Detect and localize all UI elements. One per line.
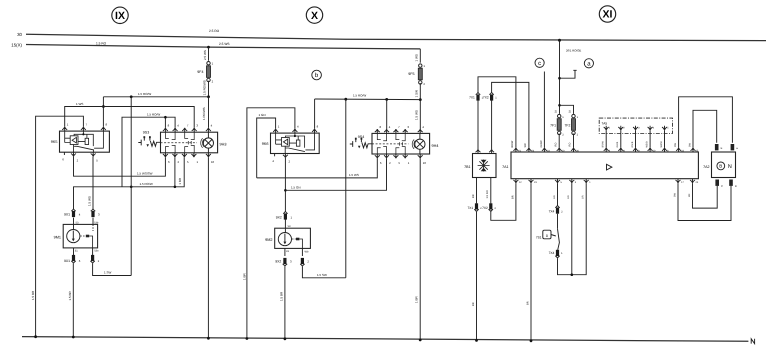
pin top-right of 7B1 [489,149,494,153]
svg-text:1.5 RO: 1.5 RO [486,190,489,198]
svg-text:E: E [721,147,723,150]
svg-text:23: 23 [534,181,537,184]
wire washer interconnect vertical x131 [130,97,132,276]
node 7X1.2 wire / ground bus [475,339,478,342]
connector 7A2 bottom pin D [729,180,737,189]
pin 2 of 9K5 [71,152,79,162]
pin 7 of 9K5 [81,123,88,131]
node pin8 riser / 1 WS line [102,105,105,108]
pin 2 of 9K6 [283,154,291,164]
svg-text:2: 2 [562,134,564,137]
pin 4 top of 9H4 [384,125,391,133]
svg-text:GE/B: GE/B [616,141,619,147]
wire net2' to washer 9H4 pin2 [285,158,386,190]
svg-text:1 SW: 1 SW [104,271,112,275]
svg-text:1: 1 [562,116,564,119]
wire branch to fuse 7F2 [560,105,574,114]
svg-text:9K6: 9K6 [262,142,269,146]
svg-text:9H4: 9H4 [432,144,439,148]
wire 7A1.23 to ground bus [526,183,531,341]
svg-text:10: 10 [211,160,215,164]
wire motor to lower connectors [74,248,93,255]
wire 9X1.4 into motor [73,218,75,230]
svg-text:7F2: 7F2 [565,124,571,128]
svg-text:9H3: 9H3 [220,143,227,147]
node bus 30 / radio feed [558,39,561,42]
svg-text:1 BR: 1 BR [415,295,419,303]
switch 9S4 [350,135,372,148]
pin 8b of 7A1 [633,148,640,153]
svg-text:3: 3 [98,213,100,217]
connector 9X2 pin-1 [276,211,293,219]
svg-text:SW: SW [688,142,691,147]
connector 7A2 top pin a [731,144,739,150]
washer 9H4 internals [372,133,408,154]
connector 7X1 pin2 [468,203,483,211]
svg-text:7A1: 7A1 [502,165,508,169]
svg-text:4: 4 [211,124,213,128]
pin 4b top of 9H3 [206,124,213,133]
wire fuse to pin4b top [208,97,210,128]
relay 9K5 internals [65,131,104,152]
pin 10 of 7A1 [557,148,565,153]
pin 8 of 9K5 [101,123,108,131]
svg-text:5: 5 [96,158,98,162]
wire 7A5.4 to 7A1 [646,130,651,147]
washer unit 9H4 [372,133,438,154]
svg-text:6: 6 [168,160,170,164]
svg-text:2.5 WS: 2.5 WS [203,50,207,60]
pin 6 bottom of 9H3 [163,153,170,164]
svg-text:1: 1 [589,181,591,184]
svg-text:26/1 RO/GE: 26/1 RO/GE [566,49,581,53]
svg-text:30: 30 [569,110,572,113]
svg-text:WS/B: WS/B [646,141,649,148]
svg-text:BR: BR [526,301,529,305]
svg-text:1.5 SW: 1.5 SW [317,273,327,277]
wire 7X2.2 to 7A1 pin 12 [491,183,516,220]
pin 21 of 7A1 [513,148,521,153]
svg-text:7F1: 7F1 [550,124,556,128]
wire park-feed line y117 to washer box pins 8,4 [122,112,175,187]
wire pin10 to ground bus [207,157,209,338]
svg-text:7A2: 7A2 [703,165,709,169]
svg-text:9K5: 9K5 [51,140,58,144]
wire 7A1.5 to 7X4.2 [553,183,558,205]
svg-text:7A5: 7A5 [602,121,608,125]
svg-text:1: 1 [577,116,579,119]
wire line A' (feed relay 9K6 pin8) [315,94,421,129]
svg-text:5: 5 [667,127,669,130]
pin 5 of 7A1 bottom [555,179,563,184]
svg-text:1.5 RO/W: 1.5 RO/W [138,92,151,96]
svg-text:8: 8 [380,125,382,129]
svg-text:7X1: 7X1 [469,95,475,99]
svg-text:9F5: 9F5 [408,72,414,76]
svg-text:BR: BR [472,302,475,306]
svg-text:1.5 RO/W: 1.5 RO/W [147,112,160,116]
svg-text:BR/W: BR/W [511,140,514,147]
wire ground branch to relay pin7 [31,116,83,337]
pin 3 top of 9H4 [403,125,410,133]
svg-text:RO: RO [554,143,557,147]
svg-text:7X4: 7X4 [549,210,555,214]
wire relay pin2 to washer box pin6 [74,157,166,177]
wire net2 park line y187 [74,157,185,209]
lamp symbol in 9H4 [412,133,425,154]
connector 7X2 pin2 [482,203,496,211]
washer unit 9H3 [161,132,227,153]
wire line A (feed to relay pin8) [103,92,208,127]
pin 6 stub of 9K5 [62,152,64,161]
svg-text:4: 4 [653,127,655,130]
svg-text:53b: 53b [94,221,99,224]
svg-text:1: 1 [561,252,563,255]
svg-text:1 BR: 1 BR [178,177,182,185]
svg-text:1.5 RO: 1.5 RO [96,42,107,46]
svg-text:1.5 RO/W: 1.5 RO/W [140,182,153,186]
node pin10 wire / ground bus [207,337,210,340]
connection marker c [535,58,544,67]
wire 7A1.24 to 7A2.C [688,183,717,208]
svg-text:1: 1 [197,160,199,164]
pin 10 bottom of 9H3 [206,153,215,164]
antenna module 7A5 [599,118,672,133]
connector 9X1 pin1 [90,255,99,263]
svg-text:2: 2 [289,160,291,164]
svg-text:c: c [538,61,541,67]
pin 6 bottom of 9H4 [375,154,382,165]
svg-text:GN/B: GN/B [631,141,634,147]
svg-text:17: 17 [681,181,684,184]
ground bus [22,337,755,344]
pin 5 bottom of 9H4 [393,154,400,165]
svg-text:7S1: 7S1 [536,235,542,239]
svg-text:5: 5 [561,181,563,184]
pin 8c of 7A1 [662,148,669,153]
pump motor 9M2 [265,225,310,253]
svg-text:5: 5 [399,161,401,165]
svg-text:1: 1 [291,216,293,220]
svg-text:3: 3 [196,124,198,128]
svg-text:1: 1 [609,127,611,130]
wire 7X2 down to 7B1 [491,100,493,150]
fuse 9F4 [197,46,213,97]
pin 24 of 7A1 bottom [690,179,699,184]
node switch return / pin3 riser [571,273,574,276]
wire 9H4 pin10 to ground bus [419,158,421,340]
svg-text:7X1: 7X1 [468,206,474,210]
wire 7X1.2 to ground bus [476,212,478,341]
node line A' / pump vertical [344,98,347,101]
pin 3 of 7A5 [633,126,640,130]
pin 8 of 7A1 [618,148,625,153]
svg-text:GR: GR [553,195,556,199]
svg-text:1.5 BR: 1.5 BR [31,290,35,300]
node ground bus / x246 vertical [246,337,249,340]
wire outer U to 7A2 [674,97,732,148]
pin 12 of 7A1 bottom [513,179,522,184]
bus 15(X) [11,43,420,49]
svg-text:1 GN: 1 GN [259,113,266,117]
connector 9X1 pin6 [64,255,81,263]
connector 9X2 pin2 [300,258,309,266]
connector 7X4 pin1 [549,250,563,258]
wire 7A5.5 to 7A1 [660,130,665,147]
svg-text:1: 1 [98,259,100,263]
node 7A1.23 wire / ground bus [530,339,533,342]
svg-text:1 RO/WS: 1 RO/WS [202,107,206,120]
pin 4 top of 9H3 [173,124,180,133]
pin 1 of 9K5 [62,123,69,131]
pin 1 of 7A1 bottom [584,179,592,184]
svg-text:N: N [728,164,732,170]
node fuse 9F5 / line A' [419,98,422,101]
pin 5 of 7A5 [662,126,669,130]
wire inner U to 7A2 [688,110,716,147]
pin 26 of 7A1 [571,148,579,153]
pin 8 top of 9H3 [163,124,170,133]
svg-text:7: 7 [86,123,88,127]
svg-text:Wb: Wb [305,250,309,253]
svg-text:30: 30 [554,110,557,113]
pin 1 of 7A5 [604,126,611,130]
svg-text:12: 12 [519,181,522,184]
svg-text:2: 2 [212,80,214,84]
svg-text:9S3: 9S3 [143,130,149,134]
pin 1 of 9K6 [273,125,280,133]
fuse 7F1 [550,114,564,147]
svg-text:1.5 WS: 1.5 WS [87,196,91,206]
svg-text:0: 0 [546,234,548,238]
svg-text:2: 2 [77,158,79,162]
svg-text:2: 2 [178,160,180,164]
pin 1 bottom of 9H4 [403,154,410,165]
wire terminal stub [560,70,577,78]
svg-text:8: 8 [317,125,319,129]
pin 5 bottom of 9H3 [182,153,189,164]
wire 7X1 down to 7B1 [477,100,479,150]
svg-text:6: 6 [62,158,64,162]
svg-text:IX: IX [115,10,125,22]
section marker IX [112,7,128,23]
svg-text:XI: XI [603,9,613,21]
section marker XI [599,6,615,22]
lamp symbol in 9H3 [201,132,214,153]
svg-text:C: C [721,185,723,188]
pin 4 of 9K6 [292,125,299,133]
svg-text:1.5 WS: 1.5 WS [415,110,419,120]
svg-text:1 SW: 1 SW [414,90,418,98]
wire 7X1 to 7A1 pin 21 [478,77,516,148]
svg-text:D: D [735,185,737,188]
svg-text:SW: SW [524,143,527,148]
pin 10b of 7A1 [648,148,656,153]
svg-text:7: 7 [187,124,189,128]
svg-text:4: 4 [422,125,424,129]
pin 4b top of 9H4 [418,125,425,133]
svg-text:1: 1 [67,123,69,127]
svg-text:X: X [311,10,318,22]
svg-text:2.5 RO: 2.5 RO [209,29,220,33]
svg-text:GR: GR [567,195,570,199]
wire 7A1.17 to 7A2.D [673,183,731,220]
pump motor 9M1 [54,221,99,252]
wire 9X2.3 to ground bus [279,266,285,339]
pin 23 of 7A1 [676,148,684,153]
switch 7S1 [536,214,560,250]
svg-text:GR: GR [582,195,585,199]
svg-text:SW: SW [673,192,676,197]
wire relay 9K6 pin2 down [284,158,286,212]
svg-text:4: 4 [272,159,274,163]
svg-text:53e: 53e [94,249,99,252]
pin 3 of 7A1 bottom [569,179,577,184]
node pin2 wire / net2' [284,189,287,192]
pin 2 bottom of 9H3 [172,153,179,164]
wire 1 WS (relay pin1 to washer box pin3) [65,102,195,128]
pin 7 top of 9H4 [393,125,400,133]
connector 7A2 top pin E [715,144,723,150]
pin 25 of 7A1 [691,148,699,153]
wire 7A5.2 to 7A1 [616,130,621,147]
pin 3 top of 9H3 [192,124,199,133]
node ground bus / left vertical [34,335,37,338]
svg-text:5: 5 [187,160,189,164]
wire pump vertical x345 [345,99,347,278]
pin top-left of 7B1 [476,149,481,153]
section marker X [306,7,322,23]
node net2 / washer vertical [130,186,133,189]
svg-text:31: 31 [75,249,78,252]
svg-text:a: a [736,147,738,150]
svg-text:SW: SW [674,142,677,147]
svg-text:7X2: 7X2 [483,95,489,99]
svg-text:1: 1 [278,125,280,129]
svg-text:1.5 RO/W: 1.5 RO/W [353,94,366,98]
node line A / washer vertical [130,95,133,98]
svg-text:2: 2 [623,127,625,130]
svg-text:7X2: 7X2 [482,206,488,210]
wire 9X1.3 into motor [92,218,94,225]
connector 7A2 bottom pin C [715,180,723,189]
wire c-drop to 7A1 pin 18 [540,72,545,148]
connection marker a [584,59,593,68]
wire motor 9M2 to lower connectors [285,248,303,256]
connector 9X1 pin4 [64,209,81,217]
svg-text:1.5 GN: 1.5 GN [291,186,301,190]
svg-text:BR: BR [688,193,691,197]
pin 8 top of 9H4 [375,125,382,133]
node fuse branch junction [558,104,561,107]
connector 9X2 pin3 [275,258,292,266]
pin 23 of 7A1 bottom [529,179,538,184]
pin 10 bottom of 9H4 [418,154,427,165]
svg-text:2: 2 [423,82,425,86]
wire relay pin5 to connector 9X1.3 [87,157,93,210]
svg-text:3: 3 [290,260,292,264]
wire radio feed drop [559,40,561,114]
wire 9X2 into motor [284,220,286,233]
node relay 9K5 coil junction [82,133,84,135]
svg-text:BR: BR [511,195,514,199]
wire 9X2.2 to pump vertical [302,266,345,278]
fuse 9F5 [408,49,425,100]
svg-text:RO: RO [569,143,572,147]
svg-text:3: 3 [407,125,409,129]
svg-text:1.5 WS: 1.5 WS [349,173,359,177]
washer 9H3 internals [161,132,198,153]
switch 9S3 [138,130,160,147]
node fuse-9F4 / line A junction [207,95,210,98]
wire 7X4.1 to 7A1 pins 3 and 1 [558,183,587,275]
svg-text:1 WS: 1 WS [76,102,83,106]
svg-text:3: 3 [575,181,577,184]
wire 9X1.6 to ground bus [68,263,74,337]
svg-text:9F4: 9F4 [197,70,203,74]
antenna unit 7B1 [464,154,496,178]
svg-text:3: 3 [638,127,640,130]
svg-text:6: 6 [79,259,81,263]
wire 9X1.1 to washer vertical [93,263,132,275]
svg-text:2: 2 [577,134,579,137]
wire pin4 drop [386,99,388,129]
svg-text:9M1: 9M1 [54,236,61,240]
connector 7X4 pin2 [549,205,563,213]
svg-text:BR: BR [472,194,475,198]
svg-text:2.5 WS: 2.5 WS [219,42,229,46]
pin 2 of 7A5 [618,126,625,130]
svg-text:4: 4 [79,213,81,217]
pin 8 of 9K6 [312,125,319,133]
pin 2 bottom of 9H4 [384,154,391,165]
node 9X1.6 wire / ground bus [72,336,75,339]
wire 7X2 to 7A1 pin 24 [492,82,529,147]
node line A' / washer pin4 drop [385,98,388,101]
svg-text:24: 24 [696,181,699,184]
svg-text:6: 6 [380,161,382,165]
connection marker b [312,70,322,80]
svg-text:15(X): 15(X) [11,43,22,48]
svg-text:1: 1 [423,64,425,68]
pin 4 stub of 9K6 [272,154,274,163]
svg-text:1: 1 [408,161,410,165]
svg-text:4: 4 [389,125,391,129]
connector 7X1 pin1 [469,92,483,100]
svg-text:10: 10 [423,161,427,165]
svg-text:a: a [587,62,591,68]
wire relay 9K6 pin1 feed [257,113,276,178]
svg-text:8: 8 [106,123,108,127]
svg-text:8: 8 [168,124,170,128]
svg-text:GN/W: GN/W [540,140,543,148]
svg-text:BR/W: BR/W [602,141,605,148]
pin 4 of 7A5 [648,126,655,130]
relay 9K6 [262,133,319,153]
svg-text:7X4: 7X4 [549,251,555,255]
node 9X2.3 wire / ground bus [284,337,287,340]
svg-text:2: 2 [389,161,391,165]
svg-text:2: 2 [494,207,496,210]
wire 7B1 right down [486,178,491,204]
svg-text:1: 1 [495,96,497,99]
svg-text:2: 2 [307,260,309,264]
pin 7 top of 9H3 [182,124,189,133]
svg-text:31: 31 [286,250,289,253]
node pin10 wire / ground bus [419,339,422,342]
svg-text:30: 30 [17,32,22,37]
pin 24 of 7A1 [526,148,534,153]
